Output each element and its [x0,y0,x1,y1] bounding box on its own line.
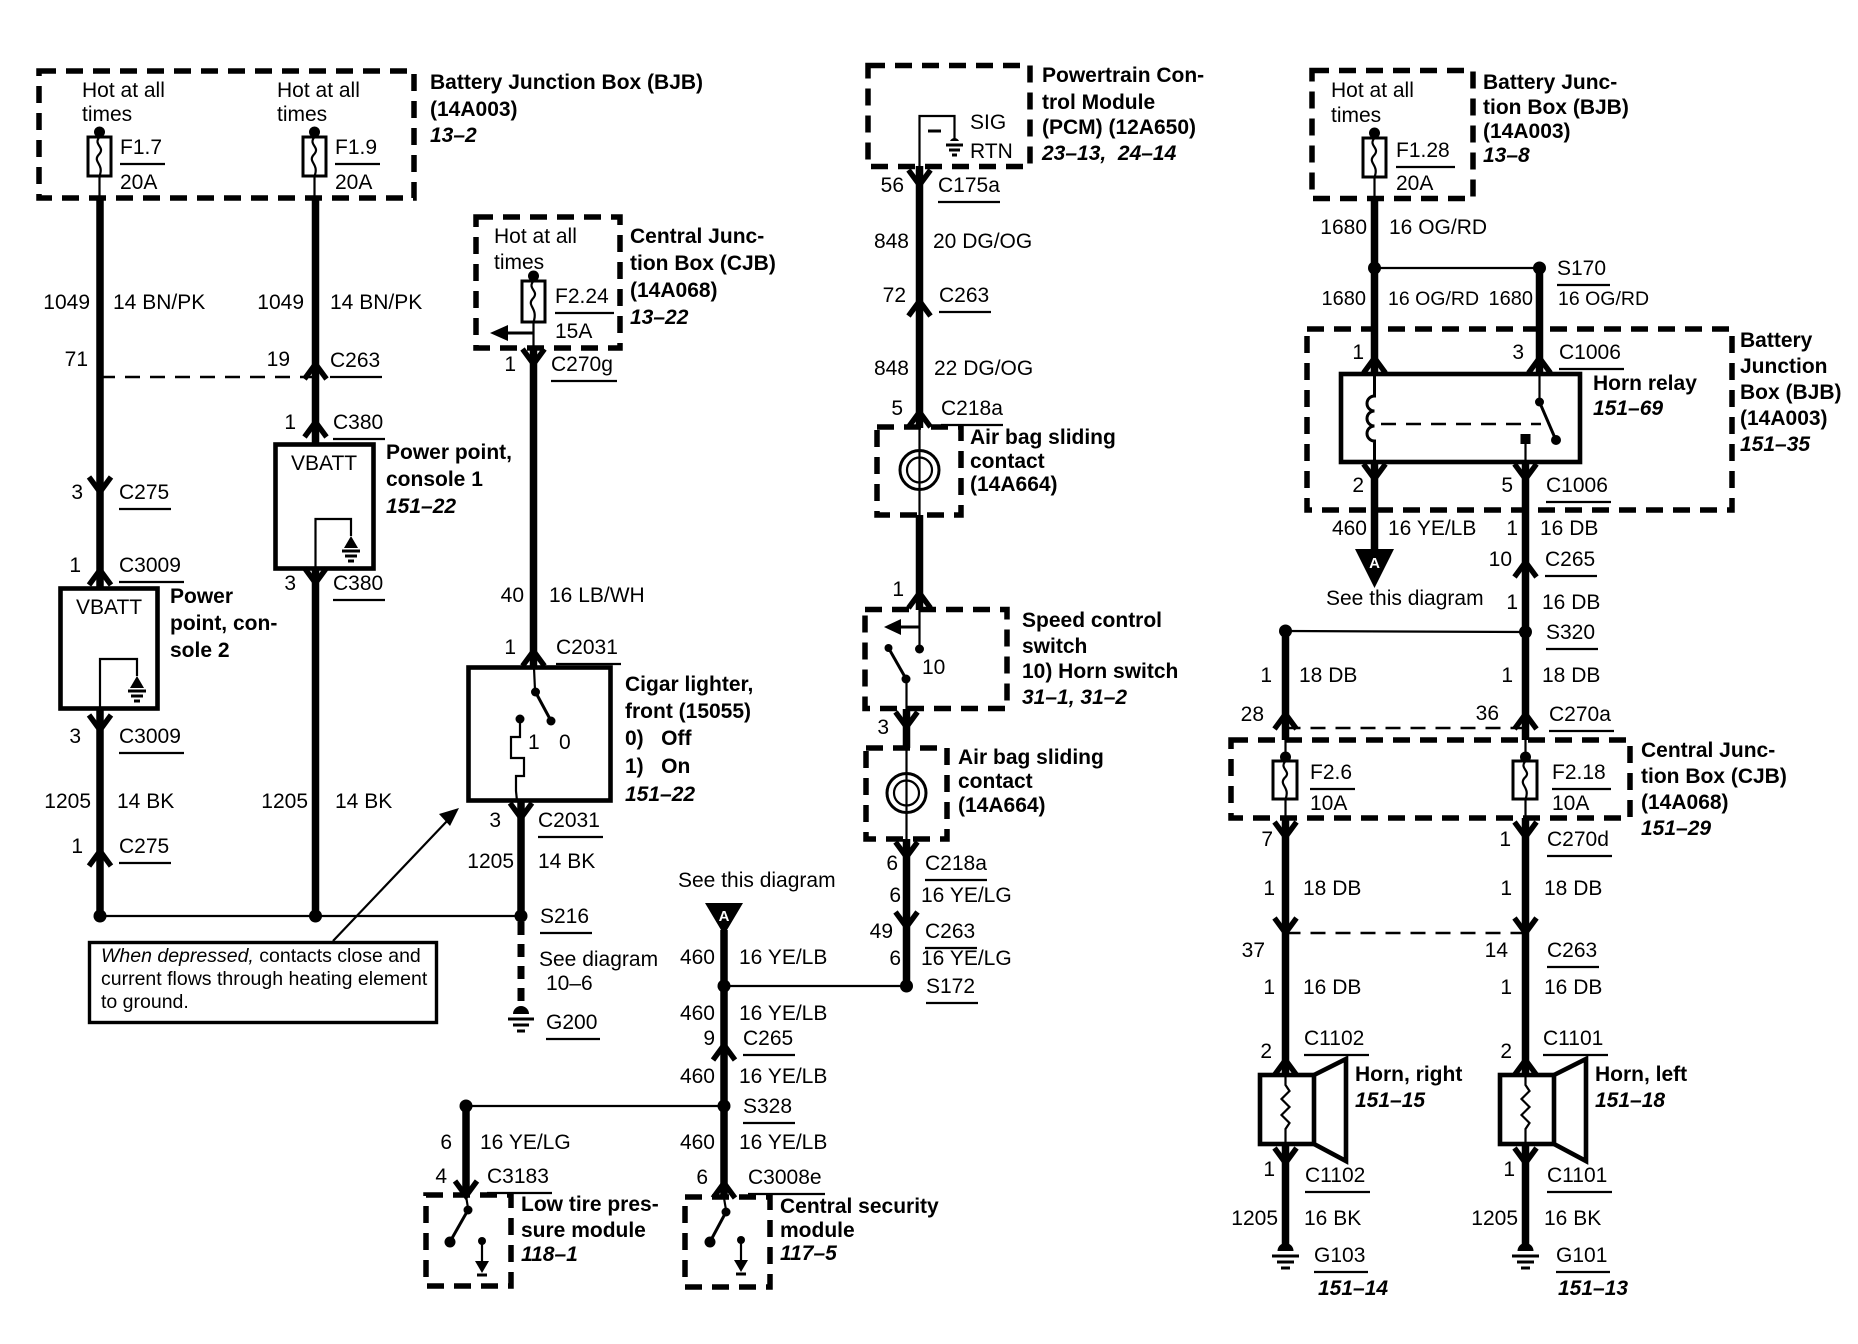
svg-text:151–69: 151–69 [1593,397,1663,420]
svg-text:13–8: 13–8 [1483,144,1530,167]
svg-text:Horn, right: Horn, right [1355,1063,1462,1086]
ground symbol inside power point console 2 [128,676,146,701]
svg-text:Air bag sliding: Air bag sliding [970,426,1116,449]
svg-text:117–5: 117–5 [780,1242,837,1265]
central security module internal switch [705,1198,749,1274]
connector C218a pin 5 [891,397,1003,427]
svg-text:F1.28: F1.28 [1396,139,1450,162]
svg-text:Battery: Battery [1740,329,1813,352]
svg-text:1: 1 [892,578,904,601]
see this diagram marker A (right) [1326,549,1484,610]
svg-text:C2031: C2031 [556,636,618,659]
svg-text:16 DB: 16 DB [1542,591,1600,614]
speed control switch dashed enclosure [865,610,1007,709]
wire circuit 40 16 LB/WH [501,348,645,668]
svg-text:times: times [277,103,327,126]
svg-text:Battery Junc-: Battery Junc- [1483,71,1617,94]
svg-text:14 BK: 14 BK [335,790,392,813]
connector C265 pin 10 [1489,548,1597,577]
Central Junction Box (CJB) 151-29 dashed enclosure [1231,740,1630,818]
svg-text:See this diagram: See this diagram [1326,587,1484,610]
svg-text:16 YE/LB: 16 YE/LB [739,1002,827,1025]
wire circuit 1680 16 OG/RD [1320,197,1487,374]
CJB 151-29 label [1641,739,1787,840]
svg-text:Battery Junction Box (BJB): Battery Junction Box (BJB) [430,71,703,94]
svg-text:See diagram: See diagram [539,948,658,971]
connector C3183 pin 4 [435,1165,552,1196]
svg-text:to ground.: to ground. [101,991,189,1013]
svg-text:18 DB: 18 DB [1303,877,1361,900]
svg-text:1: 1 [1263,976,1275,999]
svg-text:460: 460 [680,1131,715,1154]
wire to speed control switch [892,515,930,610]
svg-text:1205: 1205 [1471,1207,1518,1230]
svg-text:sure module: sure module [521,1219,646,1242]
svg-text:console 1: console 1 [386,468,483,491]
connector C218a pin 6 [886,839,987,986]
svg-text:A: A [719,908,730,925]
wire circuit 848 22 DG/OG [874,357,1033,380]
central security module dashed enclosure [685,1197,770,1287]
air bag sliding contact upper label [970,426,1116,496]
svg-text:1: 1 [69,554,81,577]
wire circuit 1205 16 BK left horn [1471,1207,1601,1230]
svg-text:16 YE/LG: 16 YE/LG [480,1131,571,1154]
svg-text:(14A068): (14A068) [1641,791,1729,814]
svg-text:Low tire pres-: Low tire pres- [521,1193,659,1216]
central security module label [780,1195,939,1265]
ground G101 [1512,1243,1628,1300]
svg-text:118–1: 118–1 [521,1243,578,1266]
svg-text:S328: S328 [743,1095,792,1118]
svg-text:Central security: Central security [780,1195,939,1218]
svg-text:contact: contact [958,770,1033,793]
svg-text:module: module [780,1219,855,1242]
svg-text:15A: 15A [555,320,592,343]
svg-text:71: 71 [65,348,88,371]
svg-text:1) On: 1) On [625,755,690,778]
connector C275 pin 1 [71,835,171,866]
svg-text:16 BK: 16 BK [1544,1207,1601,1230]
svg-text:1: 1 [1352,341,1364,364]
svg-text:3: 3 [284,572,296,595]
svg-text:2: 2 [1260,1040,1272,1063]
svg-text:3: 3 [1512,341,1524,364]
connector C270g pin 1 [504,349,617,381]
svg-text:10A: 10A [1310,792,1347,815]
cigar lighter heating element [511,715,525,802]
svg-text:VBATT: VBATT [291,452,357,475]
svg-text:3: 3 [877,716,889,739]
svg-text:S320: S320 [1546,621,1595,644]
svg-text:31–1, 31–2: 31–1, 31–2 [1022,686,1127,709]
wire circuit 1 16 DB from relay pin 5 [1506,462,1598,740]
svg-text:1205: 1205 [261,790,308,813]
svg-text:16 YE/LB: 16 YE/LB [739,946,827,969]
wire circuit 1 18 DB left branch [1260,631,1357,740]
svg-text:2: 2 [1352,474,1364,497]
connector C270d pins 7/1 [1261,818,1612,1075]
low tire pressure module internal switch [445,1196,490,1275]
svg-text:19: 19 [267,348,290,371]
svg-text:0) Off: 0) Off [625,727,693,750]
connector C380 pin 3 [284,568,385,600]
wire pin 3 to lower contact [877,709,917,748]
svg-text:C270g: C270g [551,353,613,376]
ground G200 [508,1006,600,1039]
svg-text:Air bag sliding: Air bag sliding [958,746,1104,769]
power point console 1 box (VBATT) [276,445,374,569]
svg-text:(14A664): (14A664) [958,794,1046,817]
connector C3009 pin 1 (wire 1) [69,554,184,585]
svg-text:16 OG/RD: 16 OG/RD [1558,288,1649,310]
svg-text:1: 1 [1501,664,1513,687]
svg-text:6: 6 [696,1166,708,1189]
BJB 13-8 label [1483,71,1629,167]
svg-text:10) Horn switch: 10) Horn switch [1022,660,1178,683]
wire circuit 460 16 YE/LB segment 4 [680,1131,827,1154]
svg-text:C175a: C175a [938,174,1000,197]
wire circuit 6 16 YE/LG lower [889,947,1011,970]
svg-text:contact: contact [970,450,1045,473]
svg-text:current flows through heating: current flows through heating element [101,968,428,990]
svg-text:tion Box (CJB): tion Box (CJB) [1641,765,1787,788]
connector C1102 pin 2 [1260,1027,1369,1075]
wire circuit 1049 from F1.7 [43,197,205,916]
svg-text:(14A003): (14A003) [1483,120,1571,143]
horn relay coil [1367,374,1541,462]
svg-text:1: 1 [1499,828,1511,851]
svg-text:F2.24: F2.24 [555,285,609,308]
svg-text:10: 10 [922,656,945,679]
svg-text:RTN: RTN [970,140,1013,163]
connector C380 pin 1 [284,411,385,439]
svg-text:14: 14 [1485,939,1509,962]
svg-text:20A: 20A [335,171,372,194]
fuse F1.9 20A [303,127,380,199]
svg-text:1: 1 [1503,1158,1515,1181]
svg-text:5: 5 [1501,474,1513,497]
PCM internal SIG RTN symbol [920,116,964,166]
svg-text:F2.6: F2.6 [1310,761,1352,784]
connector C3009 pin 3 [69,715,184,753]
svg-text:C263: C263 [925,920,975,943]
svg-text:times: times [1331,104,1381,127]
svg-text:848: 848 [874,230,909,253]
svg-text:(PCM) (12A650): (PCM) (12A650) [1042,116,1196,139]
cigar lighter label [625,673,753,806]
ground G103 [1272,1243,1388,1300]
junction to S172 [718,980,731,993]
svg-text:1205: 1205 [467,850,514,873]
horn left label [1595,1063,1687,1112]
connector C1006 pins 2 and 5 [1352,464,1611,502]
svg-text:14 BN/PK: 14 BN/PK [330,291,422,314]
svg-text:C218a: C218a [925,852,987,875]
connector C2031 pin 3 [489,803,603,837]
svg-text:Hot at all: Hot at all [1331,79,1414,102]
wire circuit 1 16 DB pair [1263,976,1602,999]
svg-text:16 YE/LB: 16 YE/LB [1388,517,1476,540]
svg-text:C275: C275 [119,481,169,504]
svg-text:848: 848 [874,357,909,380]
svg-text:C1102: C1102 [1304,1027,1364,1050]
junction bus wire to S216 [94,910,522,923]
svg-text:Power: Power [170,585,233,608]
svg-text:0: 0 [559,731,571,754]
wire to low tire pressure module [440,1100,570,1197]
svg-text:(14A664): (14A664) [970,473,1058,496]
svg-text:1: 1 [1500,976,1512,999]
svg-text:Speed control: Speed control [1022,609,1162,632]
svg-text:151–29: 151–29 [1641,817,1711,840]
svg-text:Central Junc-: Central Junc- [1641,739,1775,762]
svg-text:14 BK: 14 BK [538,850,595,873]
wire circuit 6 16 YE/LG [889,884,1011,907]
svg-text:18 DB: 18 DB [1542,664,1600,687]
svg-text:point, con-: point, con- [170,612,277,635]
svg-text:1: 1 [1506,591,1518,614]
speed control switch contacts [884,610,924,709]
svg-text:20A: 20A [120,171,157,194]
speed control switch label [1022,609,1178,709]
svg-text:trol Module: trol Module [1042,91,1155,114]
svg-text:4: 4 [435,1165,447,1188]
svg-text:C263: C263 [939,284,989,307]
cigar lighter front (15055) box [469,668,611,801]
power point console 1 label [386,441,512,518]
connector C1101 pin 1 [1503,1144,1612,1245]
svg-text:F1.9: F1.9 [335,136,377,159]
svg-text:460: 460 [680,1002,715,1025]
cigar lighter switch contact [531,668,556,726]
svg-text:37: 37 [1242,939,1265,962]
connector C263 pin 49 [870,912,977,948]
connector C263 pins 37/14 [1242,918,1599,967]
svg-text:460: 460 [680,946,715,969]
svg-text:VBATT: VBATT [76,596,142,619]
svg-text:C1101: C1101 [1543,1027,1603,1050]
svg-text:C275: C275 [119,835,169,858]
svg-text:6: 6 [886,852,898,875]
svg-text:1049: 1049 [257,291,304,314]
svg-text:C270d: C270d [1547,828,1609,851]
CJB label [630,225,776,329]
svg-text:(14A068): (14A068) [630,279,718,302]
svg-text:F1.7: F1.7 [120,136,162,159]
horn left body [1500,1059,1586,1161]
svg-text:Box (BJB): Box (BJB) [1740,381,1842,404]
svg-text:3: 3 [69,725,81,748]
svg-text:16 DB: 16 DB [1540,517,1598,540]
svg-text:Hot at all: Hot at all [82,79,165,102]
svg-text:tion Box (CJB): tion Box (CJB) [630,252,776,275]
svg-text:SIG: SIG [970,111,1006,134]
dashed wire to ground [521,922,658,1012]
svg-text:40: 40 [501,584,524,607]
see this diagram marker A [678,869,836,935]
svg-text:1: 1 [1263,1158,1275,1181]
svg-text:G200: G200 [546,1011,597,1034]
fuse F1.28 20A [1363,128,1455,199]
air bag sliding contact upper (14A664) [877,427,961,515]
svg-text:1: 1 [528,731,540,754]
svg-text:1680: 1680 [1489,288,1534,310]
wire circuit 460 16 YE/LB to marker A [1332,462,1476,551]
splice S170 [1368,257,1610,285]
wire circuit 1 16 DB segment 2 [1506,591,1600,614]
feed arrow inside CJB [490,325,534,341]
svg-text:16 LB/WH: 16 LB/WH [549,584,645,607]
svg-text:Junction: Junction [1740,355,1828,378]
wire circuit 1680 16 OG/RD lower pair [1322,268,1650,374]
svg-text:C265: C265 [1545,548,1595,571]
svg-text:14 BN/PK: 14 BN/PK [113,291,205,314]
svg-text:Power point,: Power point, [386,441,512,464]
low tire pressure module dashed enclosure [426,1195,511,1286]
horn right body [1260,1059,1346,1161]
svg-text:13–2: 13–2 [430,124,477,147]
svg-text:16 YE/LB: 16 YE/LB [739,1131,827,1154]
svg-text:3: 3 [71,481,83,504]
svg-text:times: times [494,251,544,274]
svg-text:28: 28 [1241,703,1264,726]
svg-text:6: 6 [889,947,901,970]
wire circuit 1205 below console 1 [261,790,392,813]
svg-text:C1101: C1101 [1547,1164,1607,1187]
svg-text:20A: 20A [1396,172,1433,195]
connector C270a pins 28/36 [1241,702,1614,731]
Battery Junction Box (BJB) 14A003 dashed enclosure [39,71,414,198]
svg-text:1: 1 [284,411,296,434]
svg-text:7: 7 [1261,828,1273,851]
svg-text:(14A003): (14A003) [1740,407,1828,430]
splice S320 [1279,621,1598,649]
svg-text:1205: 1205 [44,790,91,813]
svg-text:Powertrain Con-: Powertrain Con- [1042,64,1204,87]
svg-text:13–22: 13–22 [630,306,689,329]
svg-text:F2.18: F2.18 [1552,761,1606,784]
svg-text:18 DB: 18 DB [1544,877,1602,900]
wire circuit 1205 16 BK right horn [1231,1207,1361,1230]
svg-text:5: 5 [891,397,903,420]
Central Junction Box (CJB) dashed enclosure [476,217,620,348]
svg-text:1680: 1680 [1320,216,1367,239]
svg-text:16 BK: 16 BK [1304,1207,1361,1230]
splice S216 [515,905,593,933]
wire circuit 1049 from F1.9 [257,197,422,916]
svg-text:16 DB: 16 DB [1303,976,1361,999]
wire circuit 460 16 YE/LB segment 3 [680,1065,827,1088]
svg-text:10: 10 [1489,548,1512,571]
svg-text:Horn, left: Horn, left [1595,1063,1687,1086]
svg-text:23–13, 24–14: 23–13, 24–14 [1041,142,1177,165]
wire circuit 1 18 DB right branch [1501,664,1600,687]
connector C263 pin 72 [883,284,991,316]
svg-text:When depressed, contacts close: When depressed, contacts close and [101,945,421,967]
fuse F2.6 10A [1273,740,1355,818]
svg-text:Horn relay: Horn relay [1593,372,1697,395]
svg-text:151–15: 151–15 [1355,1089,1425,1112]
horn relay box [1341,372,1697,462]
svg-text:C1006: C1006 [1546,474,1608,497]
svg-text:Hot at all: Hot at all [494,225,577,248]
svg-text:C270a: C270a [1549,703,1611,726]
svg-text:56: 56 [881,174,904,197]
svg-text:tion Box (BJB): tion Box (BJB) [1483,96,1629,119]
wire circuit 460 16 YE/LB (A feed) [680,930,827,1198]
svg-text:S216: S216 [540,905,589,928]
BJB label [430,71,703,147]
air bag sliding contact lower label [958,746,1104,817]
svg-text:16 OG/RD: 16 OG/RD [1388,288,1479,310]
svg-text:14 BK: 14 BK [117,790,174,813]
svg-text:1049: 1049 [43,291,90,314]
connector line C263 (dashed) pins 71/19 [65,348,382,379]
connector C1102 pin 1 [1263,1144,1370,1245]
svg-text:1: 1 [504,353,516,376]
splice S328 [466,1095,795,1123]
svg-text:1: 1 [1500,877,1512,900]
svg-text:1: 1 [1263,877,1275,900]
svg-text:C2031: C2031 [538,809,600,832]
svg-text:C1102: C1102 [1305,1164,1365,1187]
wire circuit 1205 below console 2 [44,790,174,813]
svg-text:(14A003): (14A003) [430,98,518,121]
svg-text:151–14: 151–14 [1318,1277,1388,1300]
fuse F1.7 20A [88,127,165,199]
wire circuit 460 16 YE/LB segment 2 [680,1002,827,1025]
svg-text:460: 460 [680,1065,715,1088]
svg-text:36: 36 [1476,702,1499,725]
low tire pressure module label [521,1193,659,1266]
svg-text:18 DB: 18 DB [1299,664,1357,687]
svg-text:20 DG/OG: 20 DG/OG [933,230,1032,253]
pointer arrow from note box to cigar lighter [333,808,459,941]
wire circuit 848 20 DG/OG [874,166,1032,428]
note box: cigar lighter operation [90,943,437,1023]
svg-text:49: 49 [870,920,893,943]
svg-text:151–22: 151–22 [625,783,695,806]
connector C2031 pin 1 [504,636,621,666]
svg-text:C263: C263 [1547,939,1597,962]
air bag sliding contact lower (14A664) [866,748,947,839]
svg-text:1: 1 [71,835,83,858]
svg-text:2: 2 [1500,1040,1512,1063]
Battery Junction Box (BJB) 13-8 dashed enclosure [1312,71,1473,199]
svg-text:C1006: C1006 [1559,341,1621,364]
svg-text:151–18: 151–18 [1595,1089,1665,1112]
svg-text:C3008e: C3008e [748,1166,822,1189]
svg-text:S172: S172 [926,975,975,998]
ground symbol inside power point console 1 [342,536,360,561]
connector C175a pin 56 [881,170,1001,202]
Powertrain Control Module (PCM) dashed enclosure [868,66,1030,167]
svg-text:6: 6 [440,1131,452,1154]
svg-text:switch: switch [1022,635,1087,658]
Battery Junction Box (BJB) 151-35 dashed enclosure [1307,329,1732,510]
svg-text:C265: C265 [743,1027,793,1050]
svg-text:S170: S170 [1557,257,1606,280]
svg-text:Hot at all: Hot at all [277,79,360,102]
svg-text:front (15055): front (15055) [625,700,751,723]
svg-text:C218a: C218a [941,397,1003,420]
wire circuit 1205 14 BK below cigar lighter [467,801,595,916]
wire circuit 1 18 DB pair below CJB [1263,877,1602,900]
svg-text:G101: G101 [1556,1244,1607,1267]
svg-text:151–13: 151–13 [1558,1277,1628,1300]
svg-text:10–6: 10–6 [546,972,593,995]
